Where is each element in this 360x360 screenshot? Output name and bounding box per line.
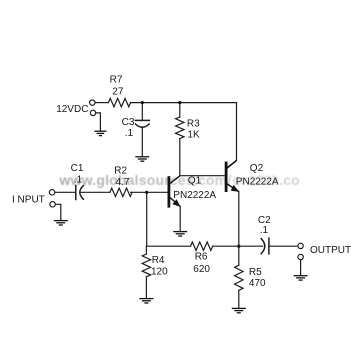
- transistor Q1: [169, 176, 181, 208]
- junction at R3 top rail: [178, 101, 181, 104]
- svg-text:OUTPUT: OUTPUT: [310, 245, 351, 256]
- wire R5 to ground: [238, 290, 240, 307]
- wire top rail: [131, 102, 237, 104]
- input terminal wire: [55, 191, 76, 193]
- svg-text:I NPUT: I NPUT: [12, 194, 45, 205]
- capacitor C3: [135, 120, 149, 127]
- svg-text:C1: C1: [71, 163, 84, 174]
- svg-text:C3: C3: [122, 117, 135, 128]
- svg-text:12VDC: 12VDC: [56, 104, 88, 115]
- wire C1 to R2: [80, 191, 110, 193]
- svg-text:120: 120: [151, 267, 168, 278]
- ground 12VDC: [94, 131, 106, 135]
- svg-text:1K: 1K: [187, 130, 200, 141]
- wire Q2 collector vertical: [227, 103, 236, 168]
- ground R5: [232, 308, 246, 312]
- capacitor C2: [261, 238, 269, 254]
- svg-text:R5: R5: [249, 267, 262, 278]
- svg-text:27: 27: [112, 87, 124, 98]
- wire 12VDC lower terminal: [96, 113, 101, 131]
- svg-text:470: 470: [249, 278, 266, 289]
- svg-text:PN2222A: PN2222A: [173, 190, 216, 201]
- wire R3 bottom to node: [179, 139, 181, 176]
- ground output: [294, 276, 308, 280]
- svg-text:PN2222A: PN2222A: [236, 176, 279, 187]
- svg-text:R3: R3: [187, 119, 200, 130]
- wire R3 stem top: [179, 103, 181, 117]
- ground Q1 emitter: [173, 232, 187, 236]
- svg-text:.1: .1: [260, 225, 269, 236]
- svg-text:R7: R7: [110, 75, 123, 86]
- wire R4 stem: [145, 246, 147, 254]
- wire Q1 emitter stem: [179, 207, 181, 231]
- svg-text:R4: R4: [152, 255, 165, 266]
- wire Q2 emitter stem: [238, 192, 240, 266]
- resistor R2: [110, 188, 132, 196]
- wire C3 stem: [141, 103, 143, 120]
- wire output lower terminal to ground: [300, 260, 302, 275]
- terminal input top: [49, 190, 54, 195]
- wire R2 to Q1 base: [131, 191, 168, 193]
- wire 12VDC to R7: [95, 102, 108, 104]
- svg-text:.1: .1: [74, 174, 83, 185]
- wire base node down: [146, 192, 148, 246]
- resistor R4: [142, 254, 150, 277]
- resistor R7: [108, 98, 130, 106]
- svg-text:.1: .1: [125, 128, 134, 139]
- resistor R6: [191, 242, 213, 250]
- resistor R5: [235, 265, 243, 290]
- svg-text:R6: R6: [195, 252, 208, 263]
- ground input: [54, 221, 68, 225]
- wire input lower terminal: [55, 204, 61, 220]
- ground R4: [139, 299, 153, 303]
- terminal 12VDC bottom: [90, 110, 95, 115]
- transistor Q2: [226, 161, 239, 192]
- svg-text:R2: R2: [114, 166, 127, 177]
- junction at C3 top rail: [141, 101, 144, 104]
- wire R6 to C2: [213, 245, 263, 247]
- svg-text:Q1: Q1: [188, 175, 202, 186]
- terminal output bottom: [298, 254, 303, 259]
- junction at R5/R6/C2 node: [237, 245, 240, 248]
- terminal input bottom: [50, 202, 55, 207]
- watermark row: [59, 172, 300, 188]
- svg-text:Q2: Q2: [250, 163, 264, 174]
- svg-text:4.7: 4.7: [116, 177, 130, 188]
- wire C3 to ground: [141, 127, 143, 156]
- wire C2 to output: [269, 245, 298, 247]
- wire node to Q2 base: [180, 175, 225, 177]
- terminal output top: [298, 243, 303, 248]
- svg-text:.co: .co: [279, 172, 300, 188]
- resistor R3: [176, 117, 184, 139]
- capacitor C1: [76, 185, 84, 199]
- wire R4 to ground: [145, 277, 147, 298]
- svg-text:www.globalsources.com/: www.globalsources.com/: [59, 172, 232, 188]
- wire node to R6: [147, 245, 191, 247]
- junction at Q1 base node: [145, 191, 148, 194]
- terminal 12VDC top: [90, 100, 95, 105]
- svg-text:620: 620: [193, 264, 210, 275]
- ground C3: [135, 157, 149, 161]
